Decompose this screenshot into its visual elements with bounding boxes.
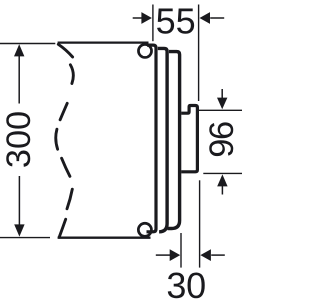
object: box bottom edge — [58, 237, 151, 239]
dimension 96 up arrow — [217, 174, 227, 194]
dimension 300 lower arrow — [14, 176, 24, 237]
svg-text:55: 55 — [156, 1, 196, 42]
dimension 96 down arrow — [217, 89, 227, 109]
object: lid top edge — [58, 41, 149, 43]
dimension 55 right arrow — [200, 12, 225, 24]
DIN rail bracket (protrusion with step) — [181, 106, 197, 172]
wire 55 left extension line — [152, 5, 154, 42]
wire 55 right extension line — [198, 5, 200, 102]
hinge pin circle top — [138, 44, 151, 57]
dimension 30 left arrow — [156, 249, 180, 261]
dimension 55 left arrow — [133, 12, 152, 24]
box inner wall (bar2) — [158, 48, 167, 231]
wire 30 left extension line — [180, 233, 182, 268]
wire bottom extension line (300 dim, bottom) — [0, 237, 50, 239]
svg-text:30: 30 — [166, 265, 205, 300]
svg-text:96: 96 — [203, 122, 241, 158]
wire 30 right extension line — [199, 180, 201, 267]
object: break cut line (dashed wavy) — [56, 44, 74, 237]
svg-text:300: 300 — [0, 111, 38, 168]
hinge pin circle bottom — [138, 223, 151, 236]
wire 96 top extension line — [197, 109, 242, 111]
dimension 300 upper arrow — [14, 44, 24, 103]
dimension 30 right arrow — [200, 249, 224, 261]
lid right wall (bar1) with top stub and bottom stub — [147, 45, 157, 232]
box outer wall (bar3) — [168, 52, 180, 229]
wire 96 bottom extension line — [203, 172, 242, 174]
wire top extension line (300 dim, top) — [0, 43, 55, 45]
